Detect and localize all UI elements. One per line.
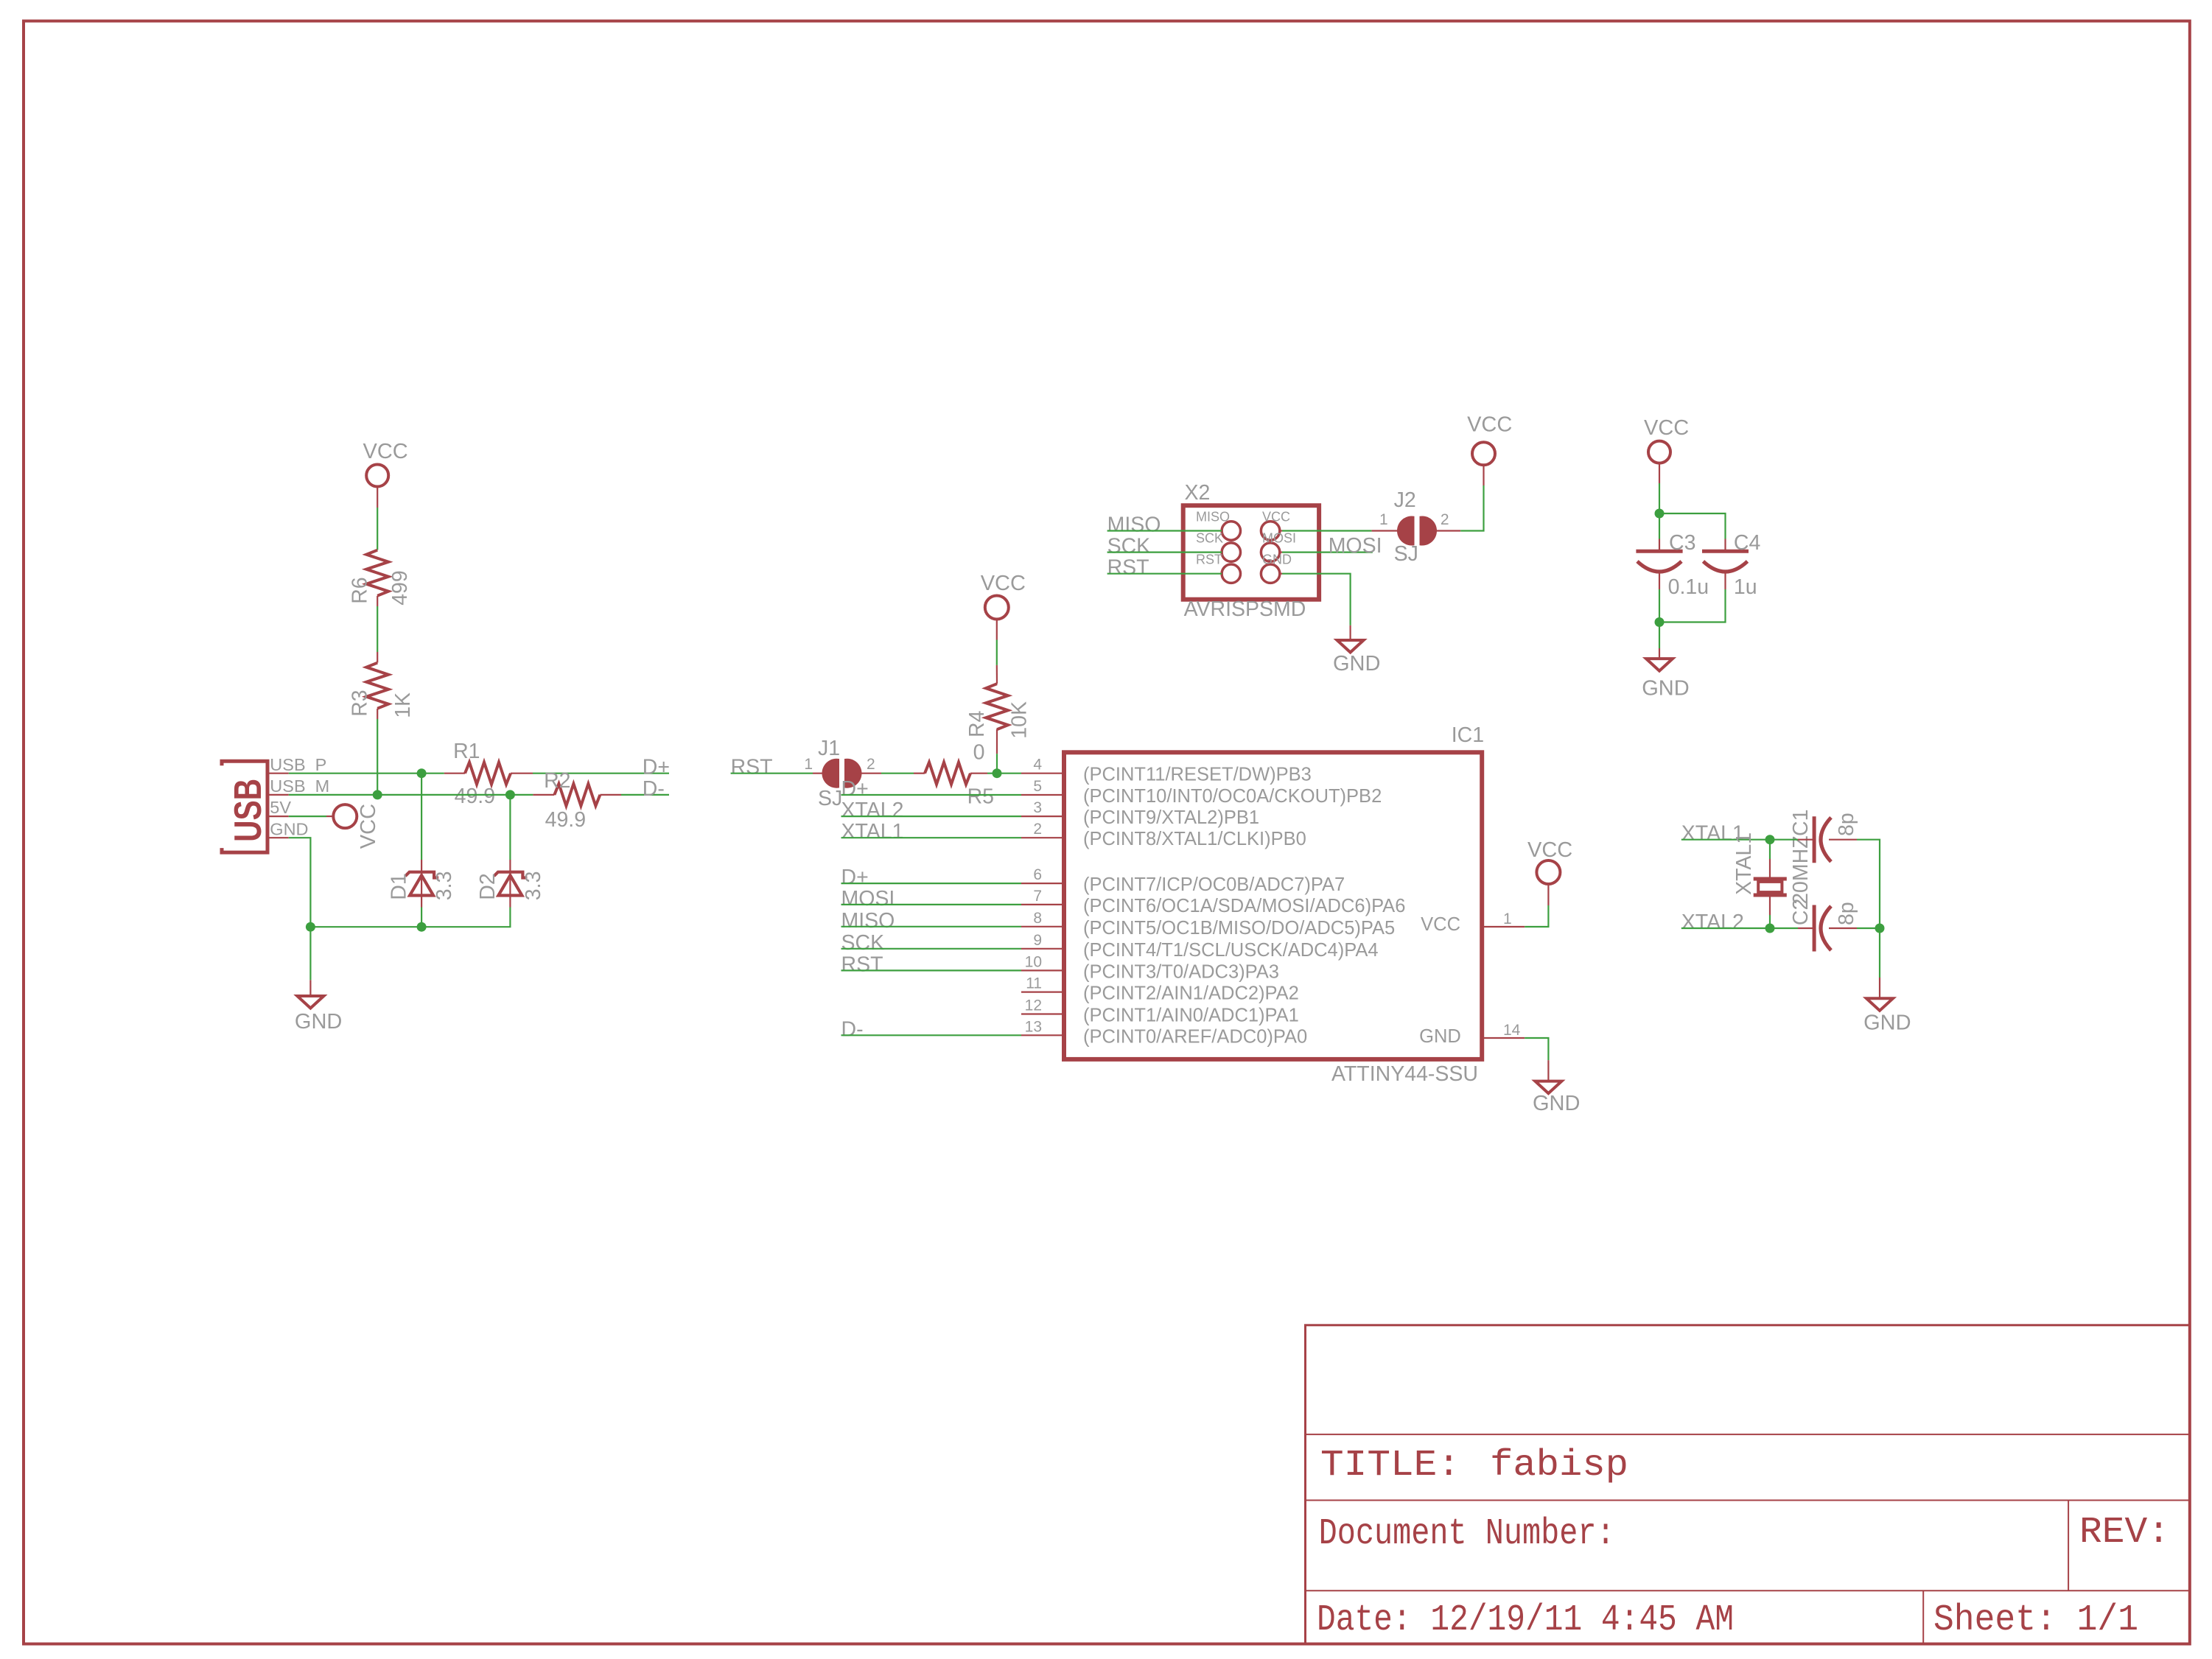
svg-text:0.1u: 0.1u xyxy=(1668,575,1709,599)
svg-text:(PCINT2/AIN1/ADC2)PA2: (PCINT2/AIN1/ADC2)PA2 xyxy=(1083,983,1299,1004)
svg-text:2: 2 xyxy=(867,756,875,773)
svg-text:USB_P: USB_P xyxy=(270,755,326,774)
svg-text:D+: D+ xyxy=(841,866,869,889)
net label MISO (X2) xyxy=(1107,513,1222,537)
svg-text:J2: J2 xyxy=(1394,488,1416,512)
svg-text:MOSI: MOSI xyxy=(841,887,895,911)
capacitor C1 8p xyxy=(1770,813,1880,928)
svg-text:RST: RST xyxy=(1196,553,1222,567)
svg-text:GND: GND xyxy=(1863,1011,1911,1035)
jumper J2 (solder jumper SJ) xyxy=(1379,488,1449,566)
power VCC (IC1 pin1) xyxy=(1527,838,1572,884)
IC1 pin 10 stub xyxy=(1021,953,1279,982)
svg-text:3: 3 xyxy=(1033,799,1042,816)
wire net SCK to IC1 pin 9 xyxy=(841,931,1022,955)
svg-text:XTAL1: XTAL1 xyxy=(841,820,904,843)
svg-text:D+: D+ xyxy=(841,777,869,801)
crystal XTAL1 20MHZ resonator xyxy=(1732,832,1787,928)
wire C3 bottom to GND xyxy=(1659,622,1660,659)
wire net XTAL2 to IC1 pin 3 xyxy=(841,799,1022,822)
IC1 ATTINY44-SSU body xyxy=(1064,723,1484,1086)
svg-text:REV:: REV: xyxy=(2079,1512,2170,1554)
svg-text:(PCINT7/ICP/OC0B/ADC7)PA7: (PCINT7/ICP/OC0B/ADC7)PA7 xyxy=(1083,874,1345,895)
svg-text:D1: D1 xyxy=(387,873,410,899)
svg-text:AVRISPSMD: AVRISPSMD xyxy=(1184,597,1306,621)
resistor R4 10K xyxy=(965,620,1032,774)
svg-text:Sheet: 1/1: Sheet: 1/1 xyxy=(1933,1599,2138,1641)
svg-text:VCC: VCC xyxy=(1644,416,1689,440)
node junction C3 bottom xyxy=(1655,617,1665,627)
IC1 pin 2 stub xyxy=(1021,821,1306,849)
svg-text:(PCINT8/XTAL1/CLKI)PB0: (PCINT8/XTAL1/CLKI)PB0 xyxy=(1083,829,1306,849)
svg-text:MOSI: MOSI xyxy=(1329,534,1382,558)
net label XTAL2 (crystal) xyxy=(1681,911,1770,934)
svg-text:SCK: SCK xyxy=(1196,531,1223,546)
svg-text:GND: GND xyxy=(1333,652,1380,676)
svg-text:(PCINT3/T0/ADC3)PA3: (PCINT3/T0/ADC3)PA3 xyxy=(1083,961,1279,982)
ground GND (IC1) xyxy=(1533,1081,1580,1115)
net label XTAL1 (crystal) xyxy=(1681,822,1770,846)
resistor R1 xyxy=(444,740,533,808)
svg-text:fabisp: fabisp xyxy=(1490,1445,1628,1487)
svg-text:D-: D- xyxy=(643,777,665,801)
USB pin labels xyxy=(270,755,329,839)
node junction GND corner xyxy=(306,922,315,932)
power VCC (J2) xyxy=(1467,413,1512,466)
svg-text:(PCINT10/INT0/OC0A/CKOUT)PB2: (PCINT10/INT0/OC0A/CKOUT)PB2 xyxy=(1083,786,1382,807)
ground GND (USB) xyxy=(295,980,342,1034)
svg-text:GND: GND xyxy=(295,1010,342,1034)
wire net MOSI to IC1 pin 7 xyxy=(841,887,1022,911)
IC1 pin 4 stub xyxy=(1021,757,1312,785)
svg-text:3.3: 3.3 xyxy=(522,871,545,901)
power VCC (C3/C4) xyxy=(1644,416,1689,463)
svg-text:7: 7 xyxy=(1033,888,1042,905)
wire crystal GND drop xyxy=(1879,928,1880,998)
title text TITLE: fabisp xyxy=(1320,1445,1628,1487)
svg-text:J1: J1 xyxy=(818,737,840,760)
capacitor C4 1u xyxy=(1659,531,1760,622)
svg-text:8p: 8p xyxy=(1835,813,1858,836)
svg-text:VCC: VCC xyxy=(1262,510,1290,525)
resistor R3 xyxy=(349,663,415,718)
power VCC (5V pin) xyxy=(289,804,380,849)
svg-text:1: 1 xyxy=(1379,511,1388,528)
svg-text:R1: R1 xyxy=(453,740,480,763)
svg-text:IC1: IC1 xyxy=(1452,723,1484,747)
svg-text:VCC: VCC xyxy=(981,572,1026,595)
svg-text:C3: C3 xyxy=(1669,531,1695,555)
svg-text:USB_M: USB_M xyxy=(270,776,329,796)
wire net MISO to IC1 pin 8 xyxy=(841,909,1022,933)
connector USB (PN61729) xyxy=(222,761,270,852)
svg-text:12: 12 xyxy=(1025,997,1042,1014)
svg-text:0: 0 xyxy=(973,741,985,765)
svg-text:5: 5 xyxy=(1033,778,1042,795)
svg-text:GND: GND xyxy=(270,819,308,838)
svg-text:MOSI: MOSI xyxy=(1262,531,1296,546)
wire net D- to IC1 pin 13 xyxy=(841,1017,1022,1041)
svg-text:USB: USB xyxy=(227,779,270,842)
wire net D+ to IC1 pin 6 xyxy=(841,866,1022,889)
svg-text:MISO: MISO xyxy=(841,909,895,933)
svg-text:10K: 10K xyxy=(1008,701,1032,739)
svg-text:R6: R6 xyxy=(349,577,372,603)
IC1 pin 13 stub xyxy=(1021,1018,1307,1047)
svg-text:(PCINT1/AIN0/ADC1)PA1: (PCINT1/AIN0/ADC1)PA1 xyxy=(1083,1006,1299,1026)
wire MOSI net (X2) xyxy=(1280,534,1382,558)
svg-text:SCK: SCK xyxy=(1107,535,1151,558)
node junction C3 top xyxy=(1655,509,1665,519)
wire VCC to C3/C4 xyxy=(1659,463,1726,539)
crystal value 20MHZ + cap names C1 C2 (rotated stack) xyxy=(1789,810,1813,926)
svg-text:2: 2 xyxy=(1441,511,1449,528)
wire net XTAL1 to IC1 pin 2 xyxy=(841,820,1022,843)
svg-text:9: 9 xyxy=(1033,932,1042,949)
svg-text:(PCINT6/OC1A/SDA/MOSI/ADC6)PA6: (PCINT6/OC1A/SDA/MOSI/ADC6)PA6 xyxy=(1083,896,1405,916)
svg-text:10: 10 xyxy=(1025,953,1042,970)
svg-text:14: 14 xyxy=(1503,1022,1521,1039)
svg-text:R2: R2 xyxy=(544,769,570,793)
svg-text:1u: 1u xyxy=(1734,575,1757,599)
svg-text:6: 6 xyxy=(1033,866,1042,883)
X2 pin labels xyxy=(1196,510,1296,567)
svg-text:11: 11 xyxy=(1026,975,1042,992)
title block xyxy=(1306,1325,2190,1644)
svg-text:SCK: SCK xyxy=(841,931,885,955)
svg-text:8p: 8p xyxy=(1835,902,1858,925)
svg-text:2: 2 xyxy=(1033,821,1042,838)
IC1 pin 6 stub xyxy=(1021,866,1345,895)
svg-text:(PCINT11/RESET/DW)PB3: (PCINT11/RESET/DW)PB3 xyxy=(1083,765,1312,785)
wire J2 to VCC xyxy=(1432,465,1484,531)
node junction C2/GND xyxy=(1875,924,1885,933)
IC1 pin 3 stub xyxy=(1021,799,1259,828)
svg-text:1K: 1K xyxy=(391,692,415,718)
ground GND (C3/C4) xyxy=(1642,659,1689,700)
IC1 pin 14 GND xyxy=(1419,1022,1548,1081)
svg-text:C1: C1 xyxy=(1789,810,1813,836)
svg-text:C4: C4 xyxy=(1734,531,1761,555)
IC1 pin 9 stub xyxy=(1021,932,1379,961)
node junction crystal bottom xyxy=(1765,924,1775,933)
IC1 pin 7 stub xyxy=(1021,888,1405,916)
IC1 pin 1 VCC xyxy=(1421,884,1548,936)
svg-text:(PCINT0/AREF/ADC0)PA0: (PCINT0/AREF/ADC0)PA0 xyxy=(1083,1026,1307,1047)
capacitor C3 0.1u xyxy=(1636,531,1709,622)
ground GND (X2) xyxy=(1333,640,1380,676)
svg-text:D+: D+ xyxy=(643,756,670,779)
X2 pin circles xyxy=(1222,522,1280,583)
svg-text:3.3: 3.3 xyxy=(433,871,456,901)
svg-text:GND: GND xyxy=(1533,1092,1580,1115)
jumper J1 (solder jumper SJ) xyxy=(804,737,875,810)
wire R6 to R3 xyxy=(377,596,378,663)
svg-text:RST: RST xyxy=(841,953,883,976)
node junction R3/USB_M xyxy=(373,790,382,799)
svg-text:TITLE:: TITLE: xyxy=(1320,1445,1460,1487)
wire X2 VCC pin to J2 xyxy=(1280,530,1402,531)
node junction R4/R5/pin4 xyxy=(993,768,1002,778)
net label RST xyxy=(731,756,813,779)
svg-text:R4: R4 xyxy=(965,710,989,737)
svg-text:SJ: SJ xyxy=(1394,542,1418,566)
svg-text:SJ: SJ xyxy=(818,787,842,810)
diode D2 zener 3.3 xyxy=(476,795,545,908)
svg-text:GND: GND xyxy=(1419,1026,1461,1047)
svg-text:VCC: VCC xyxy=(1421,914,1460,935)
svg-text:(PCINT9/XTAL2)PB1: (PCINT9/XTAL2)PB1 xyxy=(1083,807,1259,828)
IC1 pin 12 stub xyxy=(1021,997,1299,1026)
node junction D1 bottom xyxy=(417,922,427,932)
IC1 pin 5 stub xyxy=(1021,778,1382,807)
resistor R2 xyxy=(533,769,621,832)
svg-text:VCC: VCC xyxy=(363,440,408,463)
svg-text:8: 8 xyxy=(1033,910,1042,927)
svg-text:XTAL1: XTAL1 xyxy=(1732,832,1756,895)
wire net D+ to IC1 pin 5 xyxy=(841,777,1022,801)
svg-text:5V: 5V xyxy=(270,798,291,817)
wire USB_P net xyxy=(289,773,669,774)
svg-text:R5: R5 xyxy=(967,785,994,809)
svg-text:1: 1 xyxy=(804,756,813,773)
svg-text:MISO: MISO xyxy=(1107,513,1161,537)
svg-text:GND: GND xyxy=(1642,677,1689,701)
svg-text:VCC: VCC xyxy=(1527,838,1572,862)
net label RST (X2) xyxy=(1107,556,1222,580)
power VCC (above R4) xyxy=(981,572,1026,620)
svg-text:Date: 12/19/11 4:45 AM: Date: 12/19/11 4:45 AM xyxy=(1317,1599,1734,1641)
wire USB_M net xyxy=(289,794,669,796)
svg-text:R3: R3 xyxy=(349,690,372,716)
svg-text:49.9: 49.9 xyxy=(455,785,495,808)
svg-text:VCC: VCC xyxy=(1467,413,1512,437)
IC1 pin 8 stub xyxy=(1021,910,1395,939)
svg-text:ATTINY44-SSU: ATTINY44-SSU xyxy=(1331,1062,1478,1086)
USB pin stubs xyxy=(267,774,289,838)
svg-text:XTAL2: XTAL2 xyxy=(1681,911,1744,934)
svg-text:GND: GND xyxy=(1262,553,1292,567)
IC1 pin 11 stub xyxy=(1021,975,1299,1004)
net label SCK (X2) xyxy=(1107,535,1222,558)
svg-text:VCC: VCC xyxy=(357,804,380,849)
svg-text:13: 13 xyxy=(1025,1018,1042,1035)
svg-text:499: 499 xyxy=(388,570,412,606)
node junction crystal top xyxy=(1765,835,1775,844)
svg-text:X2: X2 xyxy=(1185,481,1211,505)
resistor R5 value 0 xyxy=(856,741,1021,809)
svg-text:1: 1 xyxy=(1503,911,1512,927)
svg-text:MISO: MISO xyxy=(1196,510,1230,525)
svg-text:D-: D- xyxy=(841,1017,864,1041)
svg-text:D2: D2 xyxy=(476,873,500,899)
capacitor C2 8p xyxy=(1770,902,1880,951)
power VCC (top of R6) xyxy=(363,440,408,487)
svg-text:4: 4 xyxy=(1033,757,1042,774)
ground GND (crystal) xyxy=(1863,998,1911,1034)
connector X2 AVRISPSMD body xyxy=(1183,481,1319,621)
svg-text:(PCINT5/OC1B/MISO/DO/ADC5)PA5: (PCINT5/OC1B/MISO/DO/ADC5)PA5 xyxy=(1083,918,1395,939)
resistor R6 xyxy=(349,550,412,606)
node junction D2 top xyxy=(505,790,515,799)
wire net RST to IC1 pin 10 xyxy=(841,953,1022,976)
svg-text:RST: RST xyxy=(1107,556,1149,580)
wire X2 GND pin xyxy=(1280,574,1351,640)
svg-text:Document Number:: Document Number: xyxy=(1319,1513,1615,1555)
wire GND net (USB) xyxy=(289,838,511,980)
svg-text:XTAL2: XTAL2 xyxy=(841,799,904,822)
wire R3 to USB_M xyxy=(377,709,378,795)
svg-text:(PCINT4/T1/SCL/USCK/ADC4)PA4: (PCINT4/T1/SCL/USCK/ADC4)PA4 xyxy=(1083,940,1379,961)
svg-text:20MHZ: 20MHZ xyxy=(1789,835,1813,904)
node junction D1 top xyxy=(417,768,427,778)
svg-text:49.9: 49.9 xyxy=(545,808,586,832)
diode D1 zener 3.3 xyxy=(387,774,456,927)
svg-text:RST: RST xyxy=(731,756,773,779)
wire VCC to R6 xyxy=(377,487,378,550)
